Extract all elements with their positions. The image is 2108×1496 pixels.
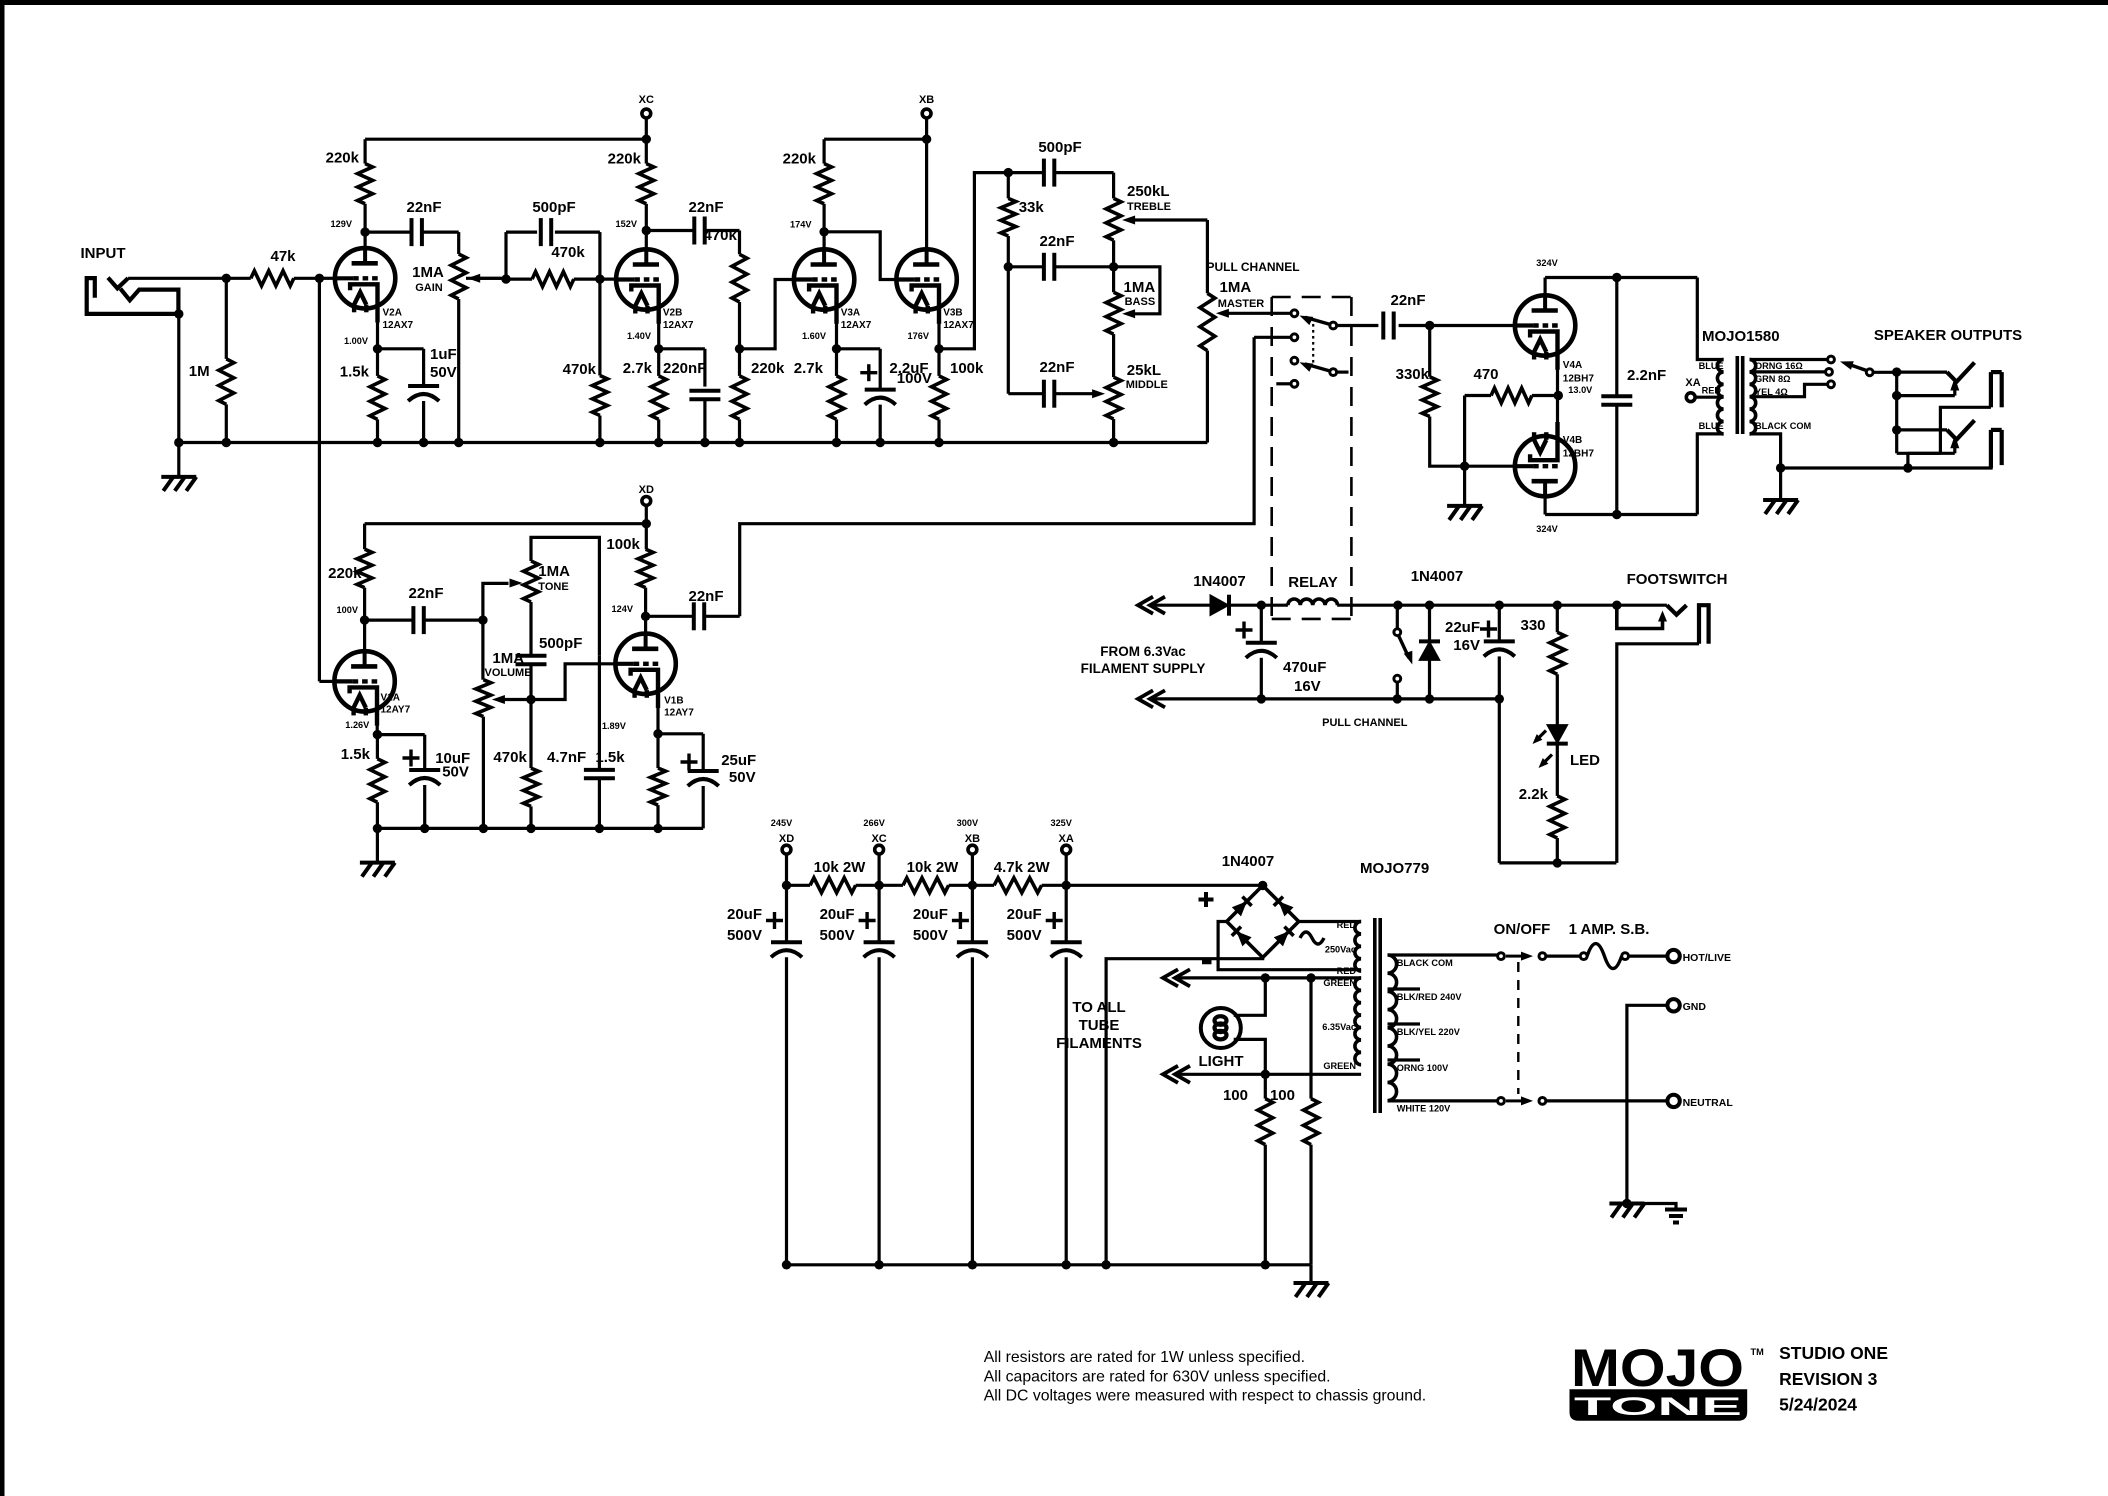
speaker output bus [1892, 367, 1901, 376]
switch mechanical link dashed [1312, 318, 1314, 363]
svg-text:V4B: V4B [1563, 435, 1582, 446]
svg-text:470uF: 470uF [1283, 659, 1326, 676]
svg-text:129V: 129V [331, 219, 353, 229]
wire V3B cathode to tone stack [939, 173, 1008, 349]
svg-text:22nF: 22nF [688, 199, 723, 216]
svg-text:470: 470 [1473, 366, 1498, 383]
svg-text:220k: 220k [608, 151, 642, 168]
transformer MOJO1580 primary [1697, 278, 1723, 360]
svg-text:33k: 33k [1019, 199, 1045, 216]
svg-text:FILAMENTS: FILAMENTS [1056, 1035, 1142, 1052]
svg-text:BLACK COM: BLACK COM [1755, 421, 1811, 431]
svg-text:16V: 16V [1294, 678, 1321, 695]
svg-text:1N4007: 1N4007 [1193, 573, 1246, 590]
resistor 100k V3B [937, 349, 940, 376]
wire bass to middle [1112, 334, 1115, 377]
wire V1B signal to switch [1254, 336, 1291, 339]
svg-text:1MA: 1MA [1124, 279, 1156, 296]
svg-text:MOJO1580: MOJO1580 [1702, 328, 1780, 345]
capacitor 2.2uF 100V V3A cathode [837, 347, 881, 350]
node XD rail [642, 519, 651, 528]
chassis ground V4 [1463, 466, 1466, 506]
primary tap BLACK COM [1388, 953, 1502, 956]
svg-text:500pF: 500pF [539, 635, 582, 652]
svg-text:LIGHT: LIGHT [1199, 1053, 1244, 1070]
resistor 330 LED [1553, 601, 1562, 610]
node 47k / V1A grid tap [315, 274, 324, 283]
svg-text:MASTER: MASTER [1218, 298, 1265, 310]
capacitor 500pF treble [1008, 171, 1044, 174]
svg-text:TONE: TONE [538, 581, 568, 593]
svg-text:RED: RED [1337, 920, 1357, 930]
node V2B cathode [657, 322, 660, 349]
terminal XA power [1062, 845, 1071, 854]
switch link dashed [1517, 962, 1519, 1094]
svg-text:LED: LED [1570, 752, 1600, 769]
svg-text:TM: TM [1751, 1347, 1765, 1357]
secondary tap ORNG 16ohm [1750, 358, 1828, 361]
svg-text:FILAMENT SUPPLY: FILAMENT SUPPLY [1081, 661, 1206, 676]
svg-text:All capacitors are rated for 6: All capacitors are rated for 630V unless… [984, 1368, 1331, 1385]
svg-text:22nF: 22nF [1039, 359, 1074, 376]
node B+ rail [874, 881, 883, 890]
svg-text:220k: 220k [326, 150, 360, 167]
svg-text:V4A: V4A [1563, 360, 1582, 371]
node V2B plate [642, 226, 651, 235]
svg-text:XD: XD [639, 484, 654, 496]
svg-text:500pF: 500pF [1038, 139, 1081, 156]
node volume wiper junction [526, 695, 535, 704]
node V3A cathode [835, 322, 838, 349]
resistor 10k 2W (XD-XC) [787, 884, 811, 887]
svg-text:20uF: 20uF [727, 906, 762, 923]
wire top rail to XC [365, 138, 646, 141]
svg-text:1.5k: 1.5k [595, 749, 625, 766]
capacitor 20uF 500V #2 [877, 885, 880, 942]
wire relay line to footswitch [1398, 604, 1617, 607]
potentiometer 1MA BASS [1106, 292, 1121, 334]
svg-text:10k 2W: 10k 2W [907, 859, 960, 876]
svg-text:All DC voltages were measured: All DC voltages were measured with respe… [984, 1388, 1427, 1405]
svg-text:220k: 220k [783, 151, 817, 168]
switch pole 1 arm [1330, 322, 1337, 329]
transformer MOJO779 core [1373, 918, 1377, 1113]
node 330k/470/V4B grid [1460, 462, 1469, 471]
node V1A cathode [376, 724, 379, 735]
resistor 2.7k V3A [835, 349, 838, 376]
resistor 220k V2A plate [364, 139, 367, 163]
svg-text:25kL: 25kL [1127, 362, 1161, 379]
svg-text:XC: XC [871, 833, 886, 845]
capacitor 22nF V1B coupling [646, 615, 695, 618]
svg-text:12AX7: 12AX7 [841, 320, 872, 331]
svg-text:12BH7: 12BH7 [1563, 374, 1595, 385]
node XC rail [642, 135, 651, 144]
capacitor 1uF 50V V2A cathode bypass [378, 347, 424, 350]
svg-text:1.26V: 1.26V [345, 720, 370, 730]
svg-text:2.7k: 2.7k [623, 360, 653, 377]
potentiometer 250kL TREBLE [1112, 173, 1115, 199]
earth ground mains [1627, 1204, 1676, 1210]
svg-text:2.7k: 2.7k [794, 360, 824, 377]
filament feed top chevrons [1138, 597, 1153, 614]
capacitor 22nF V2B coupling [646, 229, 695, 232]
wire XB rail [824, 138, 927, 141]
bridge diode TR [1278, 901, 1293, 916]
svg-text:V3A: V3A [841, 308, 860, 319]
terminal XD [642, 497, 651, 506]
terminal NEUTRAL [1667, 1095, 1679, 1107]
wire V4B plate to bottom rail [1543, 480, 1546, 514]
wire input tip to 1M node [128, 277, 226, 280]
capacitor 22nF bass [1004, 262, 1013, 271]
svg-text:220k: 220k [751, 360, 785, 377]
border frame left bar [0, 0, 5, 1496]
terminal GND [1667, 999, 1679, 1011]
filament return chevrons [1138, 690, 1153, 707]
svg-text:1.00V: 1.00V [344, 336, 369, 346]
node tone stack input [1004, 168, 1013, 177]
node V2B grid / 470k leak [595, 274, 604, 283]
potentiometer 1MA TONE [524, 561, 539, 602]
node B+ rail [1062, 881, 1071, 890]
node V3B cathode [937, 322, 940, 349]
svg-text:100V: 100V [337, 605, 359, 615]
footswitch jack [1612, 601, 1621, 610]
capacitor 470uF 16V [1260, 605, 1263, 643]
svg-text:ORNG 16Ω: ORNG 16Ω [1755, 361, 1803, 371]
svg-text:RED: RED [1337, 966, 1357, 976]
svg-text:470k: 470k [704, 227, 738, 244]
resistor 4.7k 2W (XB-XA) [972, 884, 994, 887]
svg-text:20uF: 20uF [1007, 906, 1042, 923]
svg-text:GND: GND [1683, 1001, 1707, 1013]
svg-text:16V: 16V [1453, 637, 1480, 654]
triode V2A 12AX7 [335, 248, 395, 308]
wire terminal drop [785, 855, 788, 886]
svg-text:245V: 245V [771, 818, 793, 828]
chassis ground V1 [376, 828, 379, 862]
node V4 cathodes 13.0V [1554, 391, 1563, 400]
node V2A cathode [376, 321, 379, 349]
resistor 47k [226, 277, 251, 280]
svg-text:100: 100 [1223, 1087, 1248, 1104]
transformer MOJO779 primary [1388, 955, 1397, 1101]
capacitor 220nF V2B cathode [659, 347, 705, 350]
V1 ground rail [377, 827, 703, 830]
svg-text:V1A: V1A [381, 693, 400, 704]
resistor 470k V2B grid leak [598, 279, 601, 375]
svg-text:GREEN: GREEN [1323, 1061, 1356, 1071]
node 470uF top [1257, 601, 1266, 610]
wire BLACK COM to speaker sleeves [1781, 466, 1993, 469]
resistor 470k series to V2B grid [532, 272, 574, 287]
node gain wiper / 500pF left [466, 277, 506, 280]
wire GND to chassis [1627, 1005, 1668, 1203]
pilot LIGHT [1201, 1008, 1241, 1048]
node V1B cathode [656, 706, 659, 734]
svg-text:TUBE: TUBE [1079, 1017, 1120, 1034]
node V1A plate 100V [360, 615, 369, 624]
bridge diode TL [1232, 901, 1247, 916]
svg-text:1 AMP. S.B.: 1 AMP. S.B. [1569, 921, 1650, 938]
svg-text:VOLUME: VOLUME [485, 667, 532, 679]
diode 1N4007 clamp [1425, 601, 1434, 610]
svg-text:22nF: 22nF [688, 588, 723, 605]
resistor 220k V2B plate [645, 139, 648, 163]
node V4 grid [1425, 321, 1434, 330]
svg-text:1.40V: 1.40V [627, 331, 652, 341]
input jack J1 [87, 278, 180, 314]
wire bridge minus to ground [1106, 958, 1263, 1265]
capacitor 500pF across 470k [504, 232, 507, 279]
wire to TONE pot wiper [483, 583, 509, 620]
svg-text:ORNG 100V: ORNG 100V [1397, 1063, 1449, 1073]
svg-text:25uF: 25uF [721, 752, 756, 769]
svg-text:V1B: V1B [664, 696, 683, 707]
capacitor 22nF middle [1007, 267, 1010, 394]
filament return wire [1153, 697, 1499, 700]
potentiometer 1MA GAIN [457, 232, 460, 254]
triode V4B 12BH7 (flipped) [1515, 436, 1575, 496]
svg-text:1uF: 1uF [430, 346, 457, 363]
svg-text:500V: 500V [1007, 927, 1042, 944]
svg-text:STUDIO ONE: STUDIO ONE [1779, 1343, 1888, 1363]
terminal XC [642, 109, 651, 118]
svg-text:13.0V: 13.0V [1568, 385, 1593, 395]
svg-text:250kL: 250kL [1127, 183, 1170, 200]
resistor 470k volume bottom [529, 700, 532, 769]
svg-text:2.2k: 2.2k [1519, 786, 1549, 803]
potentiometer 1MA MASTER [1206, 220, 1209, 293]
secondary BLACK COM [1750, 434, 1781, 468]
switch stub NC [1276, 382, 1291, 385]
capacitor 20uF 500V #4 [1065, 885, 1068, 942]
resistor 1.5k V1A [376, 735, 379, 759]
svg-text:FOOTSWITCH: FOOTSWITCH [1627, 571, 1728, 588]
transformer MOJO1580 core [1736, 356, 1740, 434]
wire V4A plate to HT rail [1543, 278, 1546, 312]
triode V2B 12AX7 [616, 249, 676, 309]
svg-text:22nF: 22nF [406, 199, 441, 216]
wire V3A plate to V3B grid [824, 232, 897, 280]
svg-text:1MA: 1MA [538, 563, 570, 580]
svg-text:V2B: V2B [663, 308, 682, 319]
svg-text:BLK/YEL 220V: BLK/YEL 220V [1397, 1027, 1461, 1037]
svg-text:5/24/2024: 5/24/2024 [1779, 1395, 1857, 1415]
svg-text:1.60V: 1.60V [802, 331, 827, 341]
bridge diode BL [1236, 931, 1251, 946]
svg-text:BLUE: BLUE [1699, 361, 1724, 371]
wire jack sleeve down to bus [177, 314, 180, 443]
svg-text:324V: 324V [1536, 258, 1558, 268]
wire bridge AC1 to RED top [1299, 920, 1361, 923]
svg-text:10k 2W: 10k 2W [814, 859, 867, 876]
node input jack sleeve/bus [174, 309, 183, 318]
border frame top bar [0, 0, 2108, 5]
speaker jack 1 [1892, 391, 1901, 400]
terminal XD power [782, 845, 791, 854]
svg-text:WHITE 120V: WHITE 120V [1397, 1104, 1451, 1114]
resistor 470 grid [1463, 396, 1466, 467]
wire TONE top to 4.7nF [531, 537, 599, 655]
svg-text:470k: 470k [563, 361, 597, 378]
node bass cap junction [1112, 240, 1115, 292]
node relay switch top [1393, 601, 1402, 610]
triode V1A 12AY7 [334, 651, 394, 711]
capacitor 4.7nF [584, 768, 615, 772]
svg-text:1N4007: 1N4007 [1411, 568, 1464, 585]
svg-text:XD: XD [779, 833, 794, 845]
capacitor 22nF V2A coupling [365, 231, 412, 234]
chassis ground power [1309, 1265, 1312, 1283]
svg-text:RELAY: RELAY [1288, 574, 1337, 591]
secondary tap GRN 8ohm [1750, 370, 1826, 373]
svg-text:BLACK COM: BLACK COM [1397, 958, 1453, 968]
svg-text:PULL CHANNEL: PULL CHANNEL [1322, 717, 1408, 729]
svg-text:47k: 47k [270, 248, 296, 265]
relay switch pull channel [1394, 629, 1401, 636]
resistor 2.7k V2B [657, 349, 660, 376]
secondary tap YEL 4ohm [1750, 384, 1828, 396]
svg-text:1MA: 1MA [492, 650, 524, 667]
resistor 220k V3A plate [822, 139, 825, 163]
terminal XC power [875, 845, 884, 854]
relay coil [1288, 599, 1338, 605]
svg-text:100: 100 [1270, 1087, 1295, 1104]
capacitor 25uF 50V V1B cathode [658, 732, 703, 735]
resistor 220k to ground [732, 376, 747, 420]
node B+ rail [782, 881, 791, 890]
svg-text:PULL CHANNEL: PULL CHANNEL [1206, 260, 1299, 274]
speaker jack 2 [1892, 425, 1901, 434]
resistor 10k 2W (XC-XB) [879, 884, 903, 887]
svg-text:GAIN: GAIN [415, 282, 443, 294]
svg-text:4.7k 2W: 4.7k 2W [994, 859, 1051, 876]
capacitor 500pF tone [529, 602, 532, 656]
svg-text:ON/OFF: ON/OFF [1494, 921, 1551, 938]
speaker jack 1 sleeve return [1940, 407, 1991, 453]
node B+ rail [968, 881, 977, 890]
svg-text:330k: 330k [1396, 366, 1430, 383]
svg-text:TREBLE: TREBLE [1127, 201, 1171, 213]
svg-text:50V: 50V [442, 764, 469, 781]
svg-text:BLK/RED 240V: BLK/RED 240V [1397, 992, 1463, 1002]
impedance selector arm [1866, 369, 1873, 376]
svg-text:12AY7: 12AY7 [381, 705, 411, 716]
switch pull-channel pole 1 contact [1291, 310, 1298, 317]
transformer MOJO779 heater secondary [1355, 978, 1361, 1065]
terminal XB power [968, 845, 977, 854]
svg-text:GRN 8Ω: GRN 8Ω [1755, 374, 1790, 384]
capacitor 22nF output coupling [1337, 324, 1379, 327]
svg-text:1MA: 1MA [1220, 279, 1252, 296]
wire terminal drop [877, 855, 880, 886]
svg-text:1N4007: 1N4007 [1222, 853, 1275, 870]
svg-text:20uF: 20uF [913, 906, 948, 923]
wire to V1A grid (long vertical) [318, 278, 321, 681]
svg-text:12BH7: 12BH7 [1563, 449, 1595, 460]
svg-text:500V: 500V [913, 927, 948, 944]
wire XB to V3B plate [925, 139, 928, 249]
primary tap BLK/RED 240V [1388, 987, 1421, 990]
switch ON/OFF hot side [1498, 953, 1505, 960]
capacitor 22uF 16V [1495, 601, 1504, 610]
light wiring [1234, 978, 1266, 1015]
switch pole 2 arm [1330, 369, 1337, 376]
transformer MOJO1580 secondary [1750, 360, 1756, 434]
wire XD rail [365, 522, 647, 525]
svg-text:2.2nF: 2.2nF [1627, 367, 1666, 384]
triode V4A 12BH7 [1515, 295, 1575, 355]
svg-text:22nF: 22nF [1039, 233, 1074, 250]
node XB rail [922, 135, 931, 144]
svg-text:MOJO: MOJO [1571, 1339, 1744, 1398]
svg-text:YEL 4Ω: YEL 4Ω [1755, 387, 1788, 397]
fuse 1A slow blow [1547, 954, 1584, 957]
resistor 1.5k V1B [656, 734, 659, 768]
heater line bottom to filaments [1178, 1073, 1361, 1076]
bridge diode BR [1274, 931, 1289, 946]
wire B+ rail to bridge [1066, 884, 1263, 887]
relay dashed box [1272, 297, 1352, 619]
wire terminal drop [971, 855, 974, 886]
svg-text:325V: 325V [1050, 818, 1072, 828]
transformer MOJO779 HT secondary [1355, 922, 1361, 972]
svg-text:1.5k: 1.5k [341, 746, 371, 763]
svg-text:1MA: 1MA [412, 264, 444, 281]
svg-text:470k: 470k [493, 749, 527, 766]
triode V1B 12AY7 [615, 634, 675, 694]
svg-text:12AX7: 12AX7 [663, 320, 694, 331]
svg-text:22uF: 22uF [1445, 619, 1480, 636]
svg-text:1.5k: 1.5k [340, 364, 370, 381]
wire terminal drop [1065, 855, 1068, 886]
svg-text:RED: RED [1702, 386, 1722, 396]
wire to V3A grid [740, 280, 795, 349]
resistor 2.2k LED [1550, 796, 1565, 838]
node V3A plate [819, 227, 828, 236]
resistor 220k V1A plate [363, 524, 366, 550]
svg-text:100V: 100V [897, 370, 932, 387]
primary tap BLK/YEL 220V [1388, 1022, 1421, 1025]
chassis ground mains [1609, 1202, 1644, 1206]
svg-text:XB: XB [965, 833, 980, 845]
capacitor 22nF V1A coupling [365, 618, 414, 621]
svg-text:470k: 470k [551, 244, 585, 261]
svg-text:BASS: BASS [1125, 296, 1156, 308]
svg-text:TONE: TONE [1574, 1393, 1742, 1421]
svg-text:12AY7: 12AY7 [664, 708, 694, 719]
svg-text:NEUTRAL: NEUTRAL [1683, 1097, 1734, 1109]
svg-text:124V: 124V [612, 604, 634, 614]
wire preamp ground bus [179, 441, 1208, 444]
svg-text:500V: 500V [820, 927, 855, 944]
svg-text:500pF: 500pF [532, 199, 575, 216]
svg-text:50V: 50V [729, 769, 756, 786]
svg-text:220nF: 220nF [663, 360, 706, 377]
primary tap ORNG 100V [1388, 1058, 1421, 1061]
resistor 100 left [1264, 1074, 1267, 1098]
node V1B plate 124V [641, 612, 650, 621]
svg-text:22nF: 22nF [1390, 292, 1425, 309]
svg-text:220k: 220k [328, 565, 362, 582]
svg-text:300V: 300V [957, 818, 979, 828]
svg-text:330: 330 [1520, 617, 1545, 634]
svg-text:BLUE: BLUE [1699, 421, 1724, 431]
resistor 1M [222, 274, 231, 283]
wire bridge AC2 to RED bottom [1218, 922, 1361, 970]
